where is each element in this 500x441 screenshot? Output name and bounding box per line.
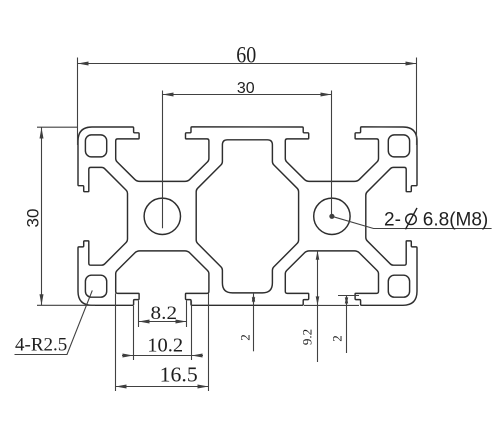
dimension 16.5: dimension line [116,386,209,388]
label 2-diam-6.8(M8) leader with dot [329,214,334,219]
dimension 2 lip: dimension line [346,296,348,354]
svg-text:60: 60 [236,42,256,67]
dimension 2 (lip): extension lines [304,296,359,306]
right core hole circle [314,198,350,234]
dimension 8.2: dimension line [139,321,187,323]
profile outer contour with T-slots [78,127,417,305]
dimension 9.2: dimension line [317,251,319,362]
svg-text:10.2: 10.2 [147,335,183,357]
dimension 16.5: extension lines [116,293,209,391]
svg-text:30: 30 [24,209,43,228]
svg-text:8.2: 8.2 [151,303,178,324]
svg-text:9.2: 9.2 [299,329,314,345]
svg-text:2: 2 [329,335,344,342]
dimension 60: dimension line [78,63,417,65]
svg-text:2: 2 [238,334,253,341]
corner hole bottom-right [388,275,409,297]
dimension 30: dimension line [163,94,332,96]
diameter symbol [406,214,417,225]
dimension 8.2: extension lines [139,301,187,328]
dimension 30 height: dimension line [41,127,43,305]
label 4-R2.5 leader line with underline [15,290,93,354]
left core hole circle [144,198,180,234]
svg-text:4-R2.5: 4-R2.5 [15,335,67,356]
dimension 30 (height): extension lines [37,127,95,305]
dimension 60: extension lines [78,58,417,146]
corner hole top-right [388,135,409,157]
dimension 10.2: extension lines [134,301,192,361]
svg-text:16.5: 16.5 [160,362,198,386]
center chamber cavity [196,140,298,293]
svg-text:6.8(M8): 6.8(M8) [423,209,488,230]
corner hole top-left [85,135,106,157]
dimension 10.2: dimension line with outside arrows [122,355,203,357]
dimension 2 (wall): dimension line [253,294,255,352]
svg-text:30: 30 [237,80,255,97]
svg-text:2-: 2- [384,209,401,230]
dimension 30 (hole spacing): extension lines [163,91,332,229]
corner hole bottom-left [85,275,106,297]
